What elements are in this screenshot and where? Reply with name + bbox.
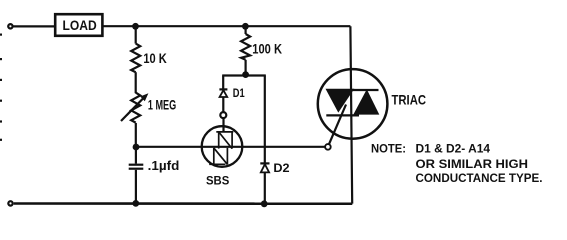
svg-text:.1µfd: .1µfd (148, 159, 180, 173)
triac top bar (352, 89, 379, 91)
svg-text:D1: D1 (233, 86, 245, 100)
node junction D2 bottom (261, 200, 268, 207)
wire: capacitor to bottom rail (135, 170, 137, 204)
wire top: LOAD to corner (102, 25, 350, 27)
wire: potentiometer to cap junction (135, 123, 137, 147)
wire mid horizontal: cap junction to triac gate (136, 146, 325, 148)
wire: 100K to bracket (245, 60, 247, 76)
svg-text:CONDUCTANCE TYPE.: CONDUCTANCE TYPE. (416, 171, 543, 185)
node junction on bracket (242, 71, 249, 78)
wire right vertical: top corner through triac to bottom corner (350, 26, 352, 203)
wire: D2 to bottom rail (264, 172, 266, 203)
triac bottom bar (326, 114, 359, 116)
svg-text:OR SIMILAR HIGH: OR SIMILAR HIGH (416, 157, 529, 171)
svg-text:D2: D2 (273, 161, 289, 175)
resistor 100K (241, 34, 250, 60)
triac right triangle (353, 89, 379, 114)
wire bottom rail (14, 202, 353, 205)
wire: circle to SBS body (222, 118, 224, 132)
capacitor .1ufd (129, 165, 144, 169)
triac body circle (318, 69, 388, 139)
svg-text:TRIAC: TRIAC (392, 93, 427, 108)
triac left triangle (326, 89, 355, 113)
svg-text:10 K: 10 K (143, 50, 166, 66)
node junction top of 100K (242, 23, 249, 30)
node junction cap bottom (132, 200, 139, 207)
potentiometer 1 MEG (131, 93, 140, 123)
wire bracket horizontal (222, 74, 266, 76)
svg-text:100 K: 100 K (252, 41, 282, 57)
svg-text:D1 & D2- A14: D1 & D2- A14 (416, 142, 491, 156)
triac gate lead (329, 105, 347, 146)
svg-text:NOTE:: NOTE: (371, 142, 406, 156)
svg-text:LOAD: LOAD (63, 18, 97, 33)
wire: junction down to 100K (245, 26, 247, 34)
node junction cap top (133, 144, 140, 151)
terminal SBS gate (small circle) (220, 112, 226, 118)
svg-text:SBS: SBS (206, 173, 229, 187)
terminal triac gate (325, 144, 331, 150)
resistor 10K (131, 44, 140, 73)
load box (55, 14, 102, 36)
wire: bracket left down to D1 (222, 76, 224, 90)
terminal top-left (8, 24, 12, 28)
diode D1 (219, 89, 227, 97)
wire: D1 to gate terminal circle (222, 97, 224, 112)
SBS inner symbol (209, 132, 233, 165)
terminal bottom-left (8, 201, 12, 205)
node junction top of 10K (132, 23, 139, 30)
potentiometer arrow (121, 93, 148, 121)
wire top: terminal to LOAD (14, 25, 56, 27)
wire: 10K to potentiometer (135, 72, 137, 93)
wire: bracket right down through D2 crossing (264, 76, 266, 164)
SBS body circle (202, 126, 243, 167)
wire: junction to capacitor (135, 147, 137, 164)
diode D2 (260, 163, 269, 172)
wire: junction down to 10K (135, 26, 137, 43)
svg-text:1 MEG: 1 MEG (148, 97, 176, 112)
